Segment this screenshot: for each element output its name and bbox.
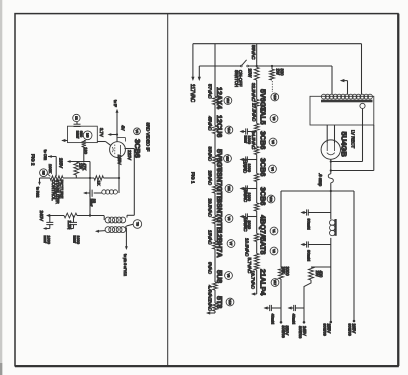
svg-text:to R62: to R62 xyxy=(36,187,40,197)
svg-text:29.5VAC: 29.5VAC xyxy=(207,199,212,218)
svg-text:V13: V13 xyxy=(226,98,230,104)
svg-text:V4: V4 xyxy=(271,167,275,171)
svg-text:220V: 220V xyxy=(127,150,132,160)
svg-text:3CB6: 3CB6 xyxy=(259,158,268,176)
svg-text:27.5VAC: 27.5VAC xyxy=(252,103,257,122)
svg-text:240V: 240V xyxy=(39,211,44,222)
svg-text:3CB6: 3CB6 xyxy=(259,131,268,149)
svg-text:V5: V5 xyxy=(135,129,139,133)
svg-text:to C52: to C52 xyxy=(43,150,47,160)
svg-text:3CB6: 3CB6 xyxy=(259,187,268,205)
svg-text:V12: V12 xyxy=(269,196,273,202)
svg-text:V16: V16 xyxy=(228,299,232,305)
svg-text:ON-OFFSWITCH: ON-OFFSWITCH xyxy=(234,70,243,87)
svg-text:V7: V7 xyxy=(229,242,233,246)
svg-text:V15: V15 xyxy=(226,156,230,162)
svg-text:6SN7GTB: 6SN7GTB xyxy=(215,168,224,201)
svg-text:12AX4: 12AX4 xyxy=(215,87,224,109)
svg-text:40mfd: 40mfd xyxy=(291,314,295,325)
svg-text:1K: 1K xyxy=(96,181,101,186)
svg-text:33VAC: 33VAC xyxy=(207,147,212,162)
svg-text:V3: V3 xyxy=(227,217,231,221)
svg-text:3RD VIDEO IF: 3RD VIDEO IF xyxy=(145,123,150,152)
svg-text:R5: R5 xyxy=(42,171,46,175)
svg-text:12CU6: 12CU6 xyxy=(215,115,224,137)
svg-text:5U4GB: 5U4GB xyxy=(340,132,349,158)
svg-text:M8: M8 xyxy=(86,133,90,138)
svg-text:15VAC: 15VAC xyxy=(207,230,212,245)
svg-text:235V: 235V xyxy=(58,158,63,168)
svg-text:.6 amp: .6 amp xyxy=(318,173,323,187)
svg-text:9VAC: 9VAC xyxy=(207,262,212,275)
svg-text:10.8VAC: 10.8VAC xyxy=(245,238,250,257)
svg-text:3.7V: 3.7V xyxy=(99,128,104,137)
svg-text:3000mmf: 3000mmf xyxy=(243,221,250,229)
svg-text:T3: T3 xyxy=(135,222,139,226)
svg-text:21ALP4: 21ALP4 xyxy=(259,269,268,295)
svg-text:40mfd: 40mfd xyxy=(270,314,274,325)
svg-text:32.5VAC: 32.5VAC xyxy=(251,83,256,102)
svg-text:145V: 145V xyxy=(117,155,122,165)
svg-text:6SN7GTB: 6SN7GTB xyxy=(215,199,224,232)
svg-text:12BH7A: 12BH7A xyxy=(215,230,224,258)
svg-text:FIG 2: FIG 2 xyxy=(30,154,35,166)
svg-text:12: 12 xyxy=(74,116,78,120)
svg-text:V14: V14 xyxy=(227,127,231,133)
svg-text:V5: V5 xyxy=(271,140,275,144)
svg-text:1000mmf: 1000mmf xyxy=(243,164,250,172)
svg-text:1000mmf: 1000mmf xyxy=(243,136,250,144)
svg-text:57VAC: 57VAC xyxy=(207,84,212,99)
svg-text:80mfd: 80mfd xyxy=(306,250,311,261)
svg-text:V11: V11 xyxy=(227,186,231,192)
svg-text:V10: V10 xyxy=(273,94,277,100)
svg-text:1000mmf: 1000mmf xyxy=(43,236,51,244)
svg-text:180: 180 xyxy=(84,147,89,154)
svg-text:117VAC: 117VAC xyxy=(189,84,195,103)
svg-text:58VAC: 58VAC xyxy=(251,45,256,60)
svg-text:5AT8: 5AT8 xyxy=(259,238,268,255)
svg-text:2VAC: 2VAC xyxy=(207,299,212,312)
svg-text:V1: V1 xyxy=(272,229,276,233)
svg-text:LV RECT: LV RECT xyxy=(351,130,356,149)
svg-text:V8: V8 xyxy=(227,274,231,278)
svg-text:28VAC: 28VAC xyxy=(207,171,212,186)
svg-text:5U8: 5U8 xyxy=(215,270,224,283)
svg-text:5T8: 5T8 xyxy=(215,296,224,308)
svg-text:20W: 20W xyxy=(247,69,252,79)
svg-text:V6: V6 xyxy=(272,117,276,121)
svg-text:to IF: to IF xyxy=(113,100,117,107)
svg-text:to pin 3 of V12: to pin 3 of V12 xyxy=(123,254,127,276)
svg-text:FIG 1: FIG 1 xyxy=(190,172,195,184)
svg-text:45VAC: 45VAC xyxy=(207,116,212,131)
svg-text:V17: V17 xyxy=(273,280,277,286)
svg-text:V2: V2 xyxy=(272,249,276,253)
svg-text:4BQ7A: 4BQ7A xyxy=(259,215,268,239)
svg-text:1000mmf: 1000mmf xyxy=(243,193,250,201)
svg-text:80mfd: 80mfd xyxy=(306,219,311,230)
svg-text:3AL5: 3AL5 xyxy=(259,107,268,125)
svg-text:16.7VAC: 16.7VAC xyxy=(250,271,255,290)
svg-text:1000mmf: 1000mmf xyxy=(73,236,81,244)
svg-text:100K: 100K xyxy=(48,164,53,174)
svg-text:4V: 4V xyxy=(120,125,125,130)
